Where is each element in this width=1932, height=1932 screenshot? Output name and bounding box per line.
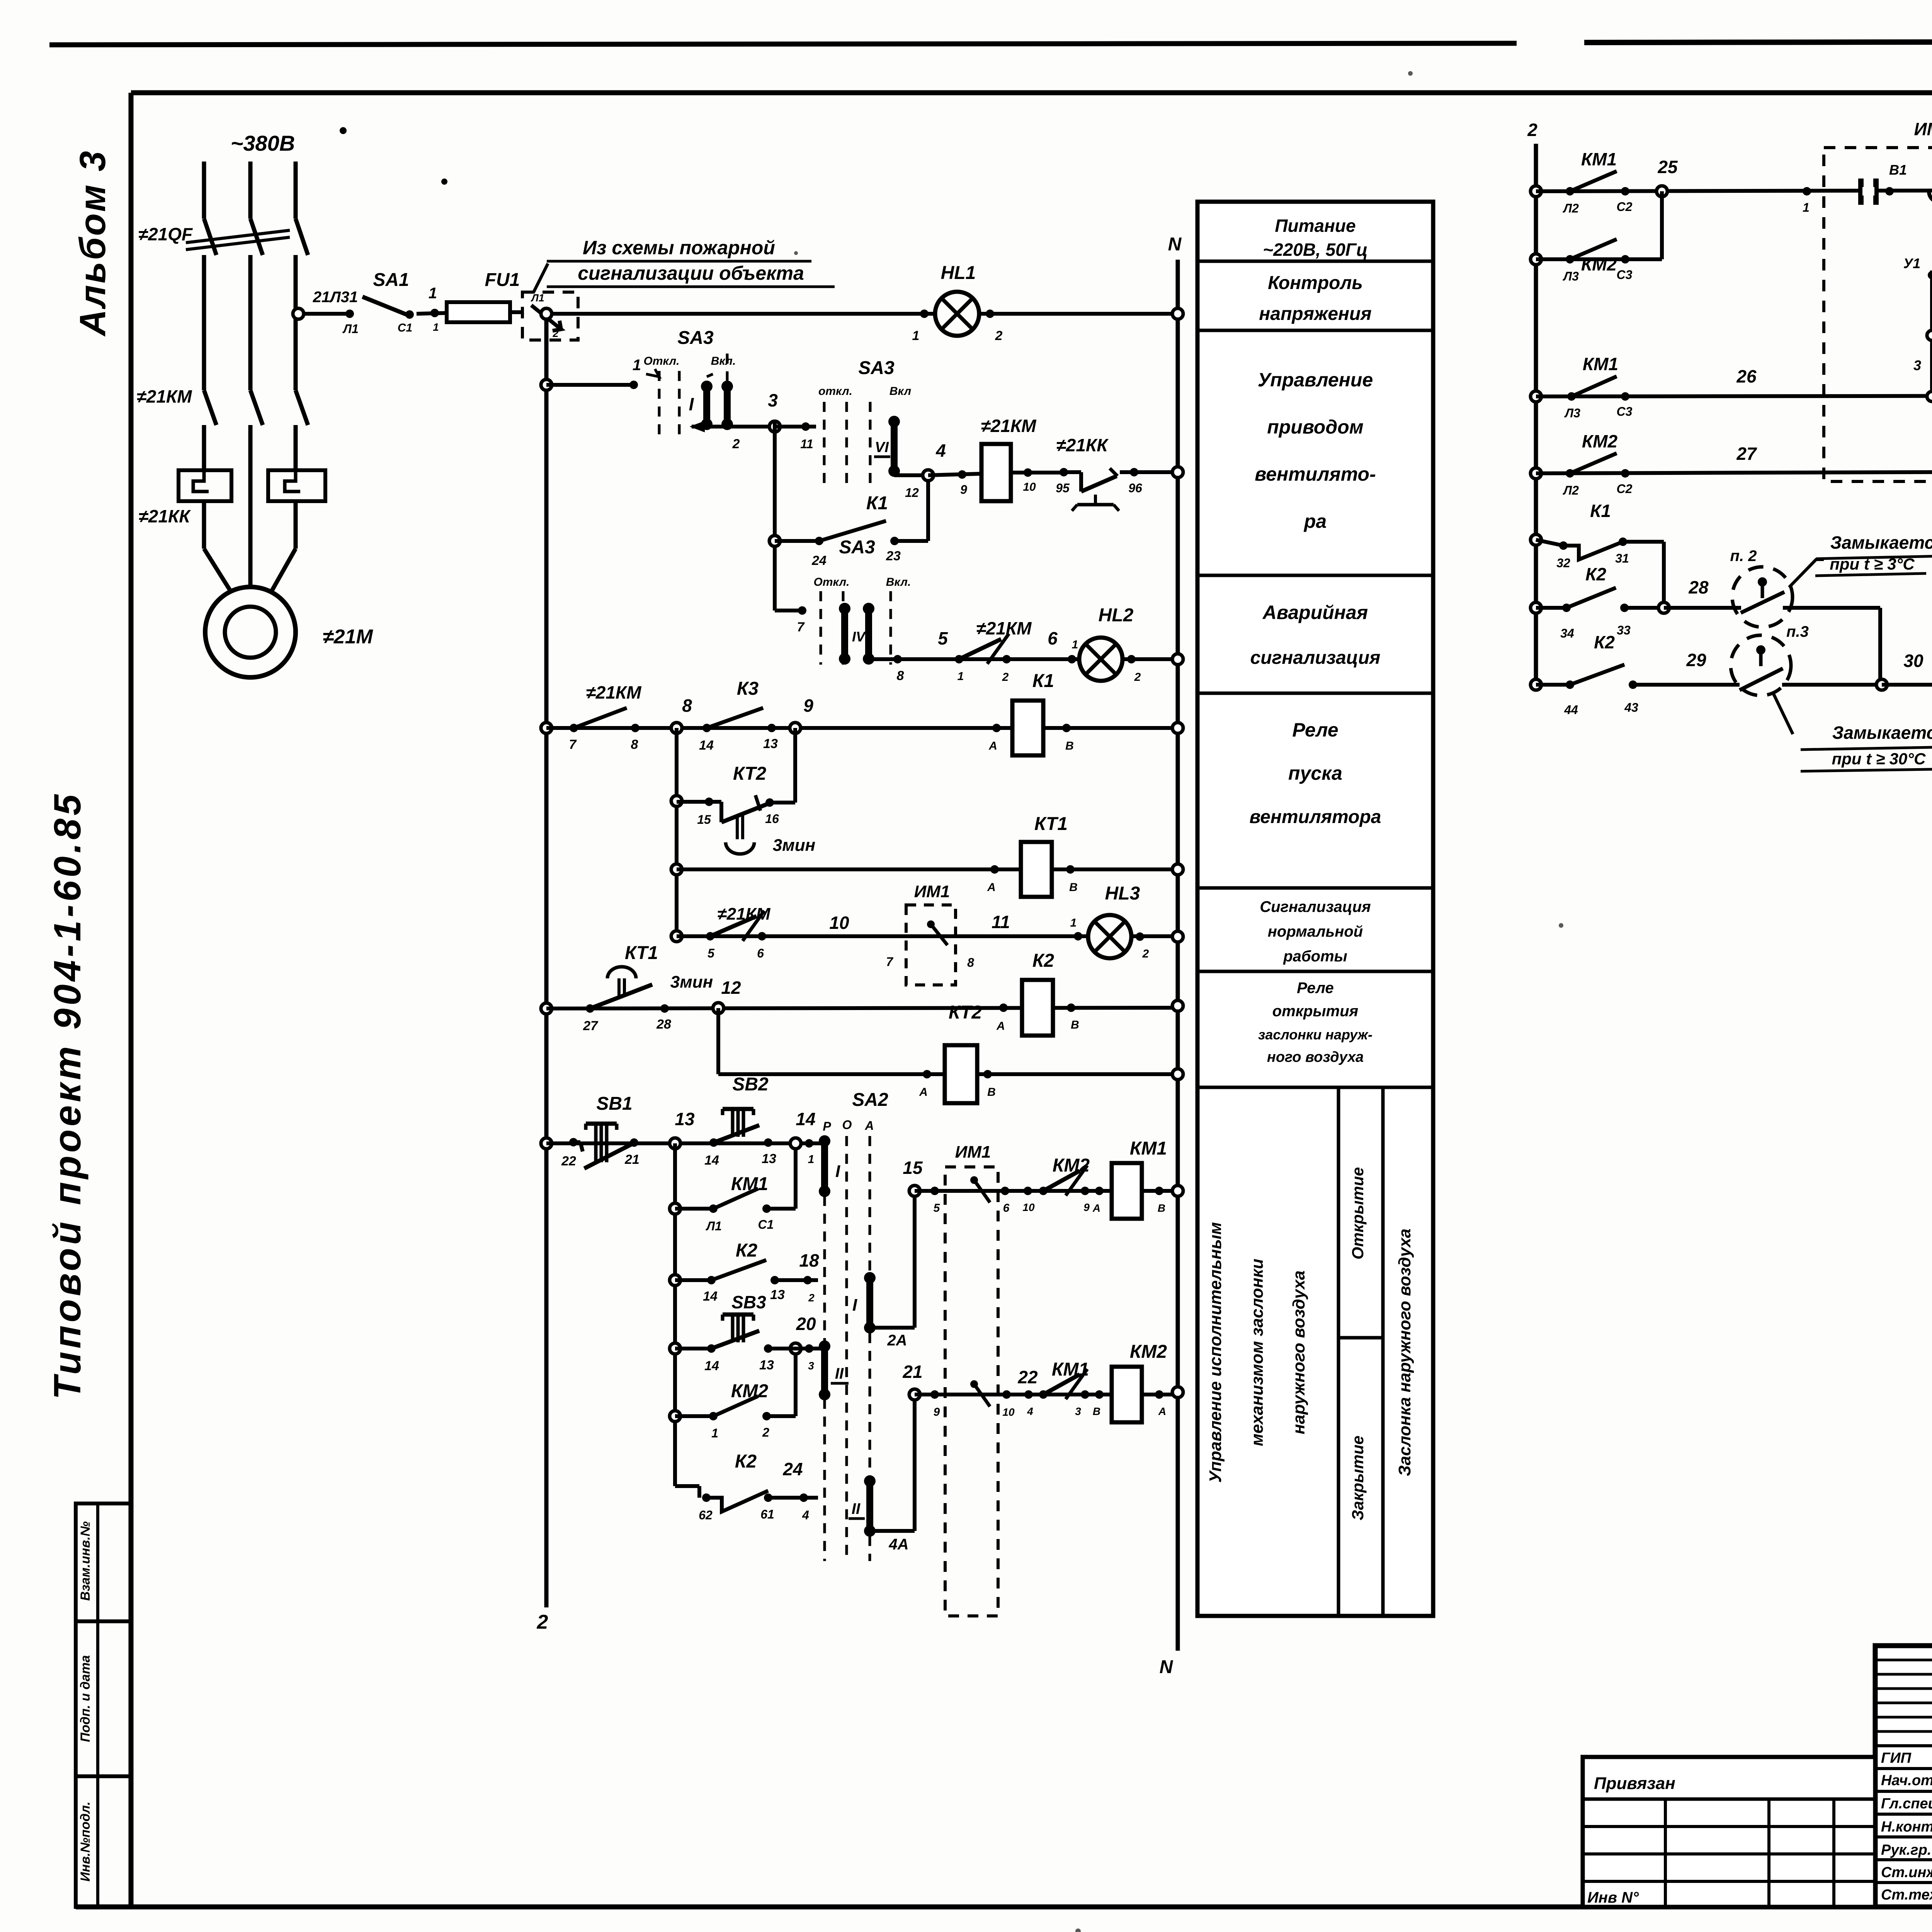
svg-text:2А: 2А [887, 1332, 907, 1349]
svg-text:9: 9 [934, 1406, 940, 1418]
branch KT2 contact under node8 [675, 728, 679, 936]
node 20 [790, 1343, 801, 1354]
wire row damper control SB1 [541, 1138, 552, 1149]
svg-text:КМ2: КМ2 [1581, 254, 1617, 274]
wire row damper-open relay K2 [541, 1003, 552, 1014]
svg-text:~220В, 50Гц: ~220В, 50Гц [1263, 240, 1368, 260]
svg-text:заслонки наруж-: заслонки наруж- [1258, 1027, 1372, 1043]
svg-text:КМ1: КМ1 [1130, 1138, 1167, 1159]
wire to sensor p2 [1664, 606, 1741, 610]
svg-text:1: 1 [1072, 638, 1078, 651]
svg-text:5: 5 [934, 1202, 940, 1214]
control bus 2 left vertical [544, 314, 549, 1607]
svg-text:5: 5 [707, 946, 715, 960]
wire row close KM2 coil [915, 1393, 1178, 1396]
svg-text:7: 7 [886, 955, 894, 969]
svg-text:4А: 4А [888, 1536, 908, 1553]
svg-text:43: 43 [1624, 701, 1638, 714]
svg-text:6: 6 [1048, 628, 1058, 648]
svg-text:работы: работы [1283, 948, 1347, 965]
svg-text:В1: В1 [1889, 162, 1907, 178]
node 8 [671, 723, 682, 733]
svg-text:IV: IV [852, 629, 866, 645]
svg-text:29: 29 [1686, 650, 1706, 670]
svg-text:Реле: Реле [1297, 980, 1334, 997]
svg-text:А: А [996, 1020, 1005, 1032]
wire tap to SA1 [304, 312, 350, 316]
left margin box Inv.No podl. [76, 1776, 131, 1907]
svg-text:Л1: Л1 [706, 1219, 722, 1233]
svg-text:нормальной: нормальной [1268, 923, 1363, 940]
contact KM2 self-hold [670, 1411, 680, 1422]
svg-text:23: 23 [886, 549, 901, 563]
svg-text:≠21М: ≠21М [323, 626, 373, 648]
wires from heaters to motor [202, 501, 206, 549]
svg-text:Вкл.: Вкл. [711, 355, 736, 367]
svg-text:2: 2 [552, 328, 558, 339]
svg-text:Управление: Управление [1258, 369, 1373, 391]
svg-text:С1: С1 [758, 1218, 774, 1231]
svg-text:14: 14 [703, 1289, 718, 1304]
limit switch in IM1 row21 [970, 1380, 978, 1388]
svg-text:Р: Р [823, 1119, 831, 1133]
svg-text:КТ1: КТ1 [1034, 814, 1068, 834]
svg-text:12: 12 [905, 486, 919, 500]
svg-text:2: 2 [732, 437, 740, 451]
svg-text:≠21КМ: ≠21КМ [976, 618, 1032, 638]
row 29 wire [1531, 679, 1541, 690]
svg-text:SA1: SA1 [373, 270, 409, 290]
contact K2 NO row 18 [670, 1275, 680, 1286]
svg-text:наружного воздуха: наружного воздуха [1289, 1270, 1308, 1434]
wire row fan-start relay [541, 723, 552, 733]
node 21 [909, 1389, 920, 1400]
svg-text:SB1: SB1 [596, 1094, 632, 1114]
svg-text:8: 8 [682, 696, 692, 716]
svg-text:2: 2 [1142, 947, 1149, 960]
svg-text:У1: У1 [1903, 255, 1920, 271]
svg-text:пуска: пуска [1288, 762, 1342, 784]
brake resistor in IM1 [1930, 270, 1932, 396]
svg-text:Подп. и дата: Подп. и дата [78, 1655, 93, 1742]
svg-text:К2: К2 [1594, 632, 1615, 652]
svg-text:Взам.инв.№: Взам.инв.№ [78, 1521, 93, 1601]
svg-text:В: В [1065, 740, 1074, 752]
svg-text:Инв N°: Инв N° [1587, 1889, 1639, 1906]
svg-text:механизмом заслонки: механизмом заслонки [1248, 1259, 1267, 1446]
svg-text:откл.: откл. [818, 385, 852, 398]
svg-text:~380В: ~380В [231, 131, 295, 155]
svg-text:7: 7 [569, 737, 577, 752]
svg-text:КМ1: КМ1 [1581, 149, 1617, 169]
svg-text:32: 32 [1556, 556, 1570, 570]
svg-text:N: N [1168, 234, 1182, 255]
svg-text:С1: С1 [398, 321, 412, 334]
svg-text:А: А [1092, 1202, 1100, 1214]
svg-text:Заслонка наружного воздуха: Заслонка наружного воздуха [1395, 1229, 1414, 1476]
node 2 junction [541, 308, 552, 319]
svg-text:14: 14 [704, 1153, 719, 1168]
svg-text:13: 13 [762, 1151, 776, 1166]
svg-text:Вкл: Вкл [889, 385, 912, 398]
svg-text:Нач.отд.: Нач.отд. [1881, 1772, 1932, 1789]
wire row open KM1 coil [915, 1189, 1178, 1193]
svg-text:1: 1 [1803, 201, 1810, 214]
svg-text:9: 9 [803, 696, 813, 716]
svg-text:Сигнализация: Сигнализация [1260, 898, 1371, 915]
bus node KM1 row [1172, 1185, 1183, 1196]
svg-text:10: 10 [829, 913, 849, 933]
svg-text:2: 2 [808, 1292, 815, 1304]
tap junction node 21L31 on phase C [293, 308, 304, 319]
svg-text:4: 4 [935, 440, 946, 461]
svg-text:Привязан: Привязан [1594, 1774, 1675, 1793]
svg-text:Закрытие: Закрытие [1349, 1435, 1367, 1520]
fire-alarm connection dashed box [522, 292, 578, 340]
svg-text:7: 7 [797, 620, 805, 634]
svg-text:34: 34 [1560, 626, 1574, 640]
svg-text:≠21КК: ≠21КК [139, 506, 191, 526]
svg-text:FU1: FU1 [485, 270, 520, 290]
node 14 [790, 1138, 801, 1149]
svg-text:Открытие: Открытие [1349, 1167, 1367, 1259]
svg-text:2: 2 [1002, 671, 1009, 684]
wire row voltage-control [546, 312, 1178, 316]
svg-text:22: 22 [561, 1154, 576, 1168]
wire sensor p3 to node 30 [1782, 683, 1882, 687]
node 13 [670, 1138, 680, 1149]
vertical from node3 down [773, 420, 777, 611]
svg-text:1: 1 [1070, 917, 1077, 929]
svg-text:96: 96 [1128, 481, 1142, 495]
svg-text:3мин: 3мин [670, 973, 713, 992]
contact KM1 self-hold [670, 1203, 680, 1214]
svg-text:11: 11 [800, 437, 813, 451]
svg-text:Замыкается: Замыкается [1830, 532, 1932, 553]
wire row KT1 timer coil [671, 864, 682, 875]
wire row normal-operation signal HL3 [671, 931, 682, 942]
svg-text:1: 1 [433, 321, 439, 333]
svg-text:SB3: SB3 [731, 1292, 766, 1312]
svg-text:31: 31 [1615, 551, 1629, 565]
svg-text:Ст.инж.: Ст.инж. [1881, 1864, 1932, 1881]
svg-text:14: 14 [704, 1359, 719, 1373]
wire K1 row up to node 4 [926, 481, 930, 541]
svg-text:КТ2: КТ2 [949, 1002, 982, 1023]
svg-text:К2: К2 [736, 1240, 758, 1261]
wire to SA3-IV [775, 609, 802, 612]
svg-text:28: 28 [656, 1017, 671, 1032]
svg-text:3: 3 [1075, 1405, 1081, 1417]
SA2 pole I position A [866, 1278, 873, 1328]
leader and note zamykaetsya pri t>=3C [1789, 560, 1824, 587]
svg-text:SB2: SB2 [732, 1074, 769, 1095]
wire SA3-VI output to node 4 [894, 473, 928, 477]
svg-text:Инв.№подл.: Инв.№подл. [78, 1801, 93, 1881]
svg-text:8: 8 [967, 956, 974, 969]
svg-text:А: А [987, 881, 996, 894]
pushbutton SB3 NO row 20 [670, 1343, 680, 1354]
svg-text:5: 5 [938, 628, 948, 648]
svg-text:1: 1 [633, 357, 641, 374]
svg-text:13: 13 [675, 1109, 695, 1129]
svg-text:II: II [835, 1365, 844, 1382]
svg-text:КМ2: КМ2 [1582, 431, 1618, 451]
relay contact K1 self-hold [769, 536, 780, 546]
svg-text:ИМ1: ИМ1 [1914, 119, 1932, 139]
svg-text:Л3: Л3 [1563, 269, 1579, 283]
svg-text:К2: К2 [1585, 564, 1606, 584]
svg-text:при t ≥ 3°С: при t ≥ 3°С [1830, 555, 1915, 573]
node 12 [713, 1003, 724, 1014]
bus node KT2 row [1172, 1069, 1183, 1080]
svg-text:Л1: Л1 [531, 292, 544, 304]
svg-text:В: В [1158, 1202, 1165, 1214]
svg-text:С3: С3 [1617, 405, 1633, 418]
SA2 pole I position P [821, 1141, 828, 1191]
svg-text:33: 33 [1617, 623, 1631, 637]
function table frame [1197, 202, 1433, 1616]
wire node3 to SA3-VI [775, 425, 816, 429]
svg-text:1: 1 [808, 1153, 815, 1166]
svg-text:К1: К1 [1590, 501, 1611, 521]
svg-text:2: 2 [1527, 120, 1537, 140]
svg-text:9: 9 [960, 483, 967, 497]
bus node HL2 row [1172, 654, 1183, 665]
svg-text:С2: С2 [1617, 200, 1633, 214]
SA2 pole II position P [821, 1346, 828, 1395]
svg-text:ИМ1: ИМ1 [914, 882, 950, 901]
svg-text:С3: С3 [1617, 268, 1633, 282]
bus node KM2 row [1172, 1387, 1183, 1398]
svg-text:13: 13 [759, 1358, 774, 1372]
node 3 [769, 421, 780, 432]
svg-text:К1: К1 [1032, 671, 1054, 691]
svg-text:Л2: Л2 [1563, 483, 1579, 497]
vertical feed from node13 [673, 1143, 677, 1486]
node row28 [1658, 602, 1669, 613]
svg-text:ГИП: ГИП [1881, 1750, 1912, 1766]
svg-text:95: 95 [1056, 481, 1070, 495]
svg-text:напряжения: напряжения [1259, 304, 1371, 324]
svg-text:13: 13 [763, 736, 778, 751]
svg-text:1: 1 [429, 285, 437, 302]
svg-text:44: 44 [1564, 703, 1578, 717]
svg-text:8: 8 [631, 737, 638, 752]
svg-text:Л1: Л1 [342, 322, 359, 336]
svg-text:≠21КМ: ≠21КМ [136, 386, 192, 406]
svg-text:20: 20 [796, 1314, 816, 1334]
svg-text:26: 26 [1736, 366, 1757, 386]
leader line to fire-alarm note [533, 264, 548, 293]
limit switch in IM1 row15 [970, 1176, 978, 1184]
svg-text:6: 6 [757, 946, 764, 960]
svg-text:2: 2 [537, 1611, 548, 1633]
svg-text:1: 1 [711, 1426, 718, 1440]
svg-text:КТ2: КТ2 [733, 764, 766, 784]
svg-text:6: 6 [1003, 1202, 1010, 1214]
left margin box Vzam.inv.No [76, 1503, 131, 1621]
node 15 [909, 1185, 920, 1196]
svg-text:13: 13 [770, 1287, 785, 1302]
svg-text:2: 2 [1134, 671, 1141, 684]
svg-text:18: 18 [799, 1250, 819, 1270]
wire row KT2 timer coil [716, 1008, 720, 1074]
svg-text:С2: С2 [1617, 482, 1633, 496]
svg-text:HL1: HL1 [941, 263, 976, 283]
wire node4 to KM coil [928, 474, 981, 475]
svg-text:п.3: п.3 [1786, 623, 1809, 640]
svg-text:1: 1 [912, 328, 920, 343]
svg-text:3мин: 3мин [773, 836, 815, 855]
svg-text:вентилято-: вентилято- [1255, 463, 1376, 485]
svg-text:КТ1: КТ1 [625, 943, 658, 963]
row 27 wire [1531, 468, 1541, 479]
wire SA1 to FU1 [417, 313, 447, 314]
svg-text:вентилятора: вентилятора [1250, 807, 1381, 827]
svg-text:15: 15 [697, 813, 711, 827]
wire row SA3-I from bus [541, 379, 552, 390]
svg-text:Л3: Л3 [1564, 406, 1580, 420]
node 4 [923, 470, 934, 481]
svg-text:Л2: Л2 [1563, 201, 1579, 215]
svg-text:I: I [835, 1162, 840, 1181]
svg-text:11: 11 [992, 912, 1010, 932]
left margin box Podp. i data [76, 1621, 131, 1776]
svg-text:25: 25 [1657, 157, 1678, 177]
svg-text:КМ2: КМ2 [1130, 1342, 1167, 1362]
svg-text:КМ2: КМ2 [1053, 1155, 1090, 1176]
svg-text:Из схемы пожарной: Из схемы пожарной [583, 237, 775, 259]
svg-text:I: I [852, 1296, 857, 1315]
svg-text:4: 4 [802, 1508, 809, 1522]
svg-text:п. 2: п. 2 [1730, 548, 1757, 565]
title block frame [1875, 1646, 1932, 1907]
svg-text:ИМ1: ИМ1 [955, 1143, 991, 1162]
svg-text:Управление исполнительным: Управление исполнительным [1206, 1222, 1225, 1483]
scan ink speck [340, 127, 347, 134]
svg-text:SA3: SA3 [677, 328, 714, 348]
svg-text:10: 10 [1022, 1201, 1035, 1213]
svg-text:В: В [1093, 1405, 1100, 1417]
svg-text:N: N [1160, 1657, 1173, 1677]
scan ink blob top [441, 179, 447, 185]
svg-text:14: 14 [699, 738, 714, 753]
svg-text:21: 21 [624, 1152, 639, 1167]
svg-text:27: 27 [583, 1019, 599, 1033]
svg-text:Реле: Реле [1292, 719, 1338, 741]
svg-text:В: В [987, 1086, 996, 1099]
SA2 pole II position A [866, 1481, 873, 1531]
svg-text:В: В [1071, 1019, 1079, 1031]
svg-text:Рук.гр.: Рук.гр. [1881, 1842, 1931, 1858]
svg-text:≠21КМ: ≠21КМ [981, 416, 1037, 436]
svg-text:открытия: открытия [1272, 1003, 1358, 1020]
bus node K1 row [1172, 723, 1183, 733]
svg-text:А: А [919, 1086, 928, 1099]
svg-text:сигнализации объекта: сигнализации объекта [578, 262, 804, 284]
svg-text:24: 24 [782, 1459, 803, 1479]
svg-text:при t ≥ 30°С: при t ≥ 30°С [1832, 750, 1926, 768]
svg-text:SA3: SA3 [858, 358, 895, 378]
svg-text:16: 16 [765, 812, 779, 826]
svg-text:14: 14 [796, 1109, 815, 1129]
svg-text:62: 62 [699, 1508, 713, 1522]
svg-text:ра: ра [1303, 510, 1327, 532]
motor #21M [205, 587, 296, 677]
junction U1 on row26 [1927, 391, 1932, 401]
svg-text:О: О [842, 1118, 852, 1132]
svg-text:61: 61 [760, 1507, 774, 1521]
top scan edge line [49, 43, 1517, 45]
svg-text:Замыкается: Замыкается [1832, 723, 1932, 743]
svg-text:10: 10 [1023, 481, 1036, 493]
svg-text:12: 12 [721, 978, 741, 998]
svg-text:К2: К2 [735, 1451, 757, 1472]
svg-text:21: 21 [902, 1362, 922, 1382]
row 25 wire [1531, 186, 1541, 197]
svg-text:Питание: Питание [1275, 216, 1355, 236]
svg-text:Аварийная: Аварийная [1262, 602, 1368, 623]
svg-text:ного воздуха: ного воздуха [1267, 1049, 1364, 1065]
svg-text:Типовой проект 904-1-60.85: Типовой проект 904-1-60.85 [46, 791, 88, 1400]
bus node K2 row [1172, 1000, 1183, 1011]
svg-text:HL3: HL3 [1105, 883, 1140, 904]
wire from SA2-A pole I to node 15 [870, 1326, 915, 1330]
wire from SA2-A pole II to node 21 [870, 1529, 915, 1533]
svg-text:4: 4 [1027, 1405, 1033, 1417]
svg-text:К2: К2 [1032, 951, 1054, 971]
svg-text:3: 3 [1913, 357, 1921, 373]
svg-text:I: I [689, 394, 694, 414]
svg-text:3: 3 [768, 390, 778, 410]
svg-text:К1: К1 [866, 493, 888, 514]
svg-text:15: 15 [903, 1158, 923, 1178]
drawing frame border [131, 90, 1932, 95]
svg-text:Гл.спец.: Гл.спец. [1881, 1796, 1932, 1812]
svg-text:Откл.: Откл. [814, 576, 850, 588]
svg-text:≠21QF: ≠21QF [138, 224, 193, 244]
svg-text:2: 2 [995, 328, 1003, 343]
bus node KT1 row [1172, 864, 1183, 875]
svg-text:28: 28 [1688, 577, 1709, 597]
svg-text:21Л31: 21Л31 [313, 289, 358, 306]
svg-text:10: 10 [1002, 1406, 1015, 1418]
svg-text:22: 22 [1017, 1367, 1038, 1387]
svg-text:24: 24 [811, 553, 827, 568]
svg-text:VI: VI [875, 439, 889, 456]
svg-text:HL2: HL2 [1099, 605, 1134, 626]
svg-text:А: А [1158, 1405, 1166, 1417]
svg-text:2: 2 [762, 1425, 769, 1439]
svg-text:Альбом 3: Альбом 3 [72, 150, 113, 337]
svg-text:30: 30 [1903, 651, 1923, 671]
svg-text:27: 27 [1736, 444, 1757, 464]
svg-text:Н.контр.: Н.контр. [1881, 1819, 1932, 1835]
svg-text:SA2: SA2 [852, 1090, 888, 1110]
svg-text:приводом: приводом [1267, 416, 1364, 438]
svg-text:9: 9 [1083, 1201, 1090, 1213]
svg-text:А: А [864, 1119, 874, 1133]
svg-text:≠21КК: ≠21КК [1056, 435, 1109, 455]
wire SA3-I output to node 3 [692, 425, 775, 429]
wire SA3-IV output to HL2 row [869, 657, 898, 661]
svg-text:≠21КМ: ≠21КМ [586, 682, 642, 702]
svg-text:В: В [1069, 881, 1078, 894]
svg-text:SA3: SA3 [839, 537, 875, 558]
node 30 [1876, 679, 1887, 690]
privyazan table [1583, 1757, 1875, 1907]
